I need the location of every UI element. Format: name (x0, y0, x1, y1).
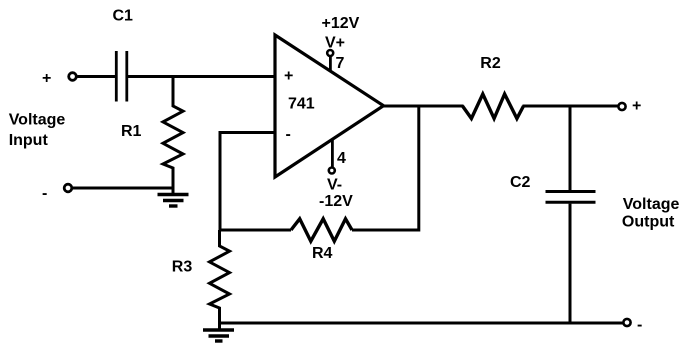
svg-text:C1: C1 (113, 7, 134, 24)
svg-text:V+: V+ (325, 34, 345, 51)
svg-text:C2: C2 (510, 174, 531, 191)
svg-text:-: - (42, 185, 47, 202)
svg-text:R1: R1 (121, 123, 142, 140)
svg-text:+: + (632, 97, 641, 114)
svg-text:Input: Input (9, 132, 49, 149)
svg-text:+12V: +12V (322, 15, 360, 32)
svg-text:Voltage: Voltage (623, 196, 680, 213)
svg-text:+: + (284, 67, 293, 84)
svg-text:+: + (42, 70, 51, 87)
svg-text:-: - (286, 126, 291, 143)
svg-text:R3: R3 (172, 259, 193, 276)
svg-text:-12V: -12V (319, 193, 353, 210)
svg-text:Voltage: Voltage (9, 112, 66, 129)
svg-text:R4: R4 (312, 245, 333, 262)
svg-text:7: 7 (336, 55, 345, 72)
svg-text:741: 741 (288, 95, 315, 112)
svg-text:Output: Output (622, 214, 675, 231)
svg-text:-: - (637, 317, 642, 334)
svg-text:R2: R2 (480, 55, 501, 72)
svg-text:4: 4 (337, 150, 346, 167)
svg-text:V-: V- (327, 176, 342, 193)
